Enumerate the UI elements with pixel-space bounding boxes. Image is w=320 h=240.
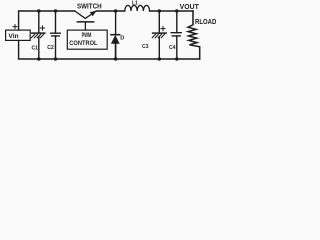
- svg-text:C2: C2: [47, 45, 54, 51]
- svg-text:C3: C3: [142, 44, 149, 50]
- svg-text:RLOAD: RLOAD: [195, 19, 216, 26]
- svg-text:C4: C4: [169, 45, 176, 51]
- svg-text:CONTROL: CONTROL: [69, 41, 98, 47]
- svg-text:PWM: PWM: [82, 33, 92, 39]
- svg-text:SWITCH: SWITCH: [77, 4, 102, 11]
- svg-text:Vin: Vin: [8, 33, 18, 40]
- svg-text:C1: C1: [32, 46, 39, 52]
- svg-text:VOUT: VOUT: [180, 4, 200, 11]
- svg-text:L1: L1: [132, 0, 138, 6]
- svg-text:D: D: [120, 36, 124, 42]
